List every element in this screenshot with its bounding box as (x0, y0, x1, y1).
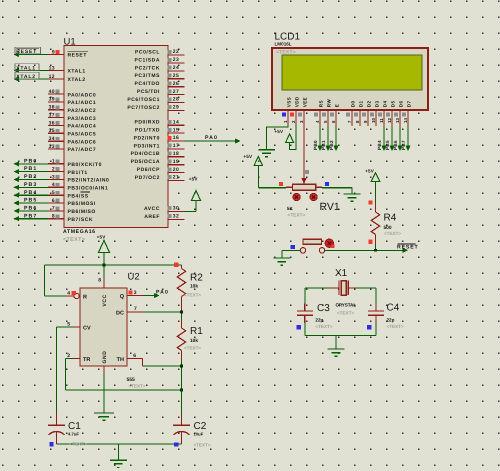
svg-text:D7: D7 (406, 101, 411, 108)
svg-text:<TEXT>: <TEXT> (287, 213, 305, 219)
svg-text:39: 39 (49, 97, 55, 103)
svg-text:1: 1 (52, 159, 55, 165)
svg-text:R: R (83, 294, 87, 300)
svg-text:VSS: VSS (286, 97, 291, 107)
svg-text:37: 37 (49, 112, 55, 118)
svg-text:10: 10 (371, 118, 376, 123)
svg-text:12: 12 (49, 74, 55, 80)
svg-text:PC6/TOSC1: PC6/TOSC1 (127, 97, 160, 103)
svg-text:D2: D2 (366, 101, 371, 108)
svg-text:<TEXT>: <TEXT> (337, 311, 354, 316)
svg-text:ATMEGA16: ATMEGA16 (63, 229, 96, 235)
svg-text:PD6/ICP: PD6/ICP (137, 167, 160, 173)
svg-text:R1: R1 (190, 326, 203, 337)
svg-text:35: 35 (49, 128, 55, 134)
svg-text:34: 34 (49, 136, 55, 142)
svg-text:PB7: PB7 (24, 213, 37, 219)
svg-text:PB5: PB5 (24, 198, 37, 204)
svg-text:X1: X1 (335, 268, 348, 279)
svg-text:40: 40 (49, 89, 55, 95)
svg-text:VEE: VEE (302, 97, 307, 107)
svg-text:3: 3 (52, 174, 55, 180)
svg-text:AREF: AREF (144, 214, 160, 220)
svg-text:PD0/RXD: PD0/RXD (134, 120, 160, 126)
svg-text:CV: CV (83, 325, 91, 331)
svg-text:26: 26 (173, 81, 179, 87)
svg-text:U1: U1 (64, 37, 76, 48)
svg-text:16: 16 (173, 135, 179, 141)
svg-text:TR: TR (83, 357, 90, 363)
svg-text:PC0/SCL: PC0/SCL (135, 49, 160, 55)
svg-text:19: 19 (173, 159, 179, 165)
svg-text:XTAL1: XTAL1 (16, 65, 36, 71)
svg-text:PB0: PB0 (24, 158, 37, 164)
svg-text:22: 22 (173, 49, 179, 55)
svg-text:RV1: RV1 (320, 201, 340, 213)
svg-text:D3: D3 (374, 101, 379, 108)
svg-text:PA3/ADC3: PA3/ADC3 (68, 116, 97, 122)
svg-text:15: 15 (173, 127, 179, 133)
svg-text:38: 38 (49, 105, 55, 111)
svg-text:D5: D5 (390, 101, 395, 108)
svg-text:<TEXT>: <TEXT> (194, 442, 211, 447)
svg-text:PB0/XCK/T0: PB0/XCK/T0 (68, 162, 102, 168)
svg-text:32: 32 (173, 214, 179, 220)
svg-text:+5V: +5V (243, 154, 253, 159)
svg-text:PB7: PB7 (401, 140, 406, 150)
svg-text:PA7/ADC7: PA7/ADC7 (68, 147, 97, 153)
svg-text:<TEXT>: <TEXT> (184, 345, 201, 350)
svg-text:2: 2 (67, 353, 70, 359)
svg-text:PA5/ADC5: PA5/ADC5 (68, 132, 97, 138)
svg-text:13: 13 (49, 65, 55, 71)
svg-text:4.7uF: 4.7uF (68, 432, 79, 437)
svg-text:555: 555 (127, 377, 136, 383)
svg-text:R4: R4 (384, 213, 397, 224)
svg-text:<TEXT>: <TEXT> (276, 50, 296, 56)
svg-text:22p: 22p (387, 317, 395, 322)
svg-text:22p: 22p (315, 317, 323, 322)
svg-text:<TEXT>: <TEXT> (70, 441, 87, 446)
svg-text:PB1/T1: PB1/T1 (68, 170, 88, 176)
svg-text:PD4/OC1B: PD4/OC1B (131, 151, 160, 157)
svg-text:7: 7 (52, 206, 55, 212)
svg-text:PA6/ADC6: PA6/ADC6 (68, 139, 97, 145)
svg-text:8: 8 (98, 278, 101, 284)
svg-text:<TEXT>: <TEXT> (387, 324, 404, 329)
svg-text:33: 33 (49, 144, 55, 150)
svg-text:<TEXT>: <TEXT> (129, 384, 146, 389)
svg-text:8: 8 (52, 214, 55, 220)
svg-text:PB6/MISO: PB6/MISO (68, 209, 96, 215)
svg-text:10uF: 10uF (194, 432, 204, 437)
svg-text:D0: D0 (350, 101, 355, 108)
svg-text:C1: C1 (68, 421, 81, 432)
svg-text:+5V: +5V (97, 235, 107, 240)
svg-text:AVCC: AVCC (144, 206, 160, 212)
svg-text:6: 6 (133, 353, 136, 359)
svg-text:PB2: PB2 (24, 174, 37, 180)
svg-text:PB4: PB4 (24, 190, 37, 196)
svg-text:CRYSTAL: CRYSTAL (336, 302, 357, 307)
svg-text:XTAL2: XTAL2 (68, 77, 86, 83)
svg-text:<TEXT>: <TEXT> (184, 293, 201, 298)
svg-text:RESET: RESET (16, 49, 37, 55)
svg-text:D4: D4 (382, 101, 387, 108)
svg-text:D6: D6 (398, 101, 403, 108)
svg-text:PD1/TXD: PD1/TXD (135, 128, 160, 134)
svg-text:14: 14 (173, 119, 179, 125)
svg-text:RESET: RESET (68, 53, 87, 59)
svg-text:PC3/TMS: PC3/TMS (134, 73, 160, 79)
svg-text:C2: C2 (194, 421, 207, 432)
svg-text:5K: 5K (287, 206, 294, 211)
svg-text:PB0: PB0 (313, 140, 318, 150)
svg-text:PC2/TCK: PC2/TCK (135, 65, 160, 71)
svg-text:PB6: PB6 (393, 140, 398, 150)
svg-text:+5V: +5V (189, 176, 199, 181)
svg-text:28: 28 (173, 97, 179, 103)
svg-text:RS: RS (318, 100, 323, 107)
svg-text:GND: GND (102, 351, 108, 364)
svg-text:5: 5 (52, 190, 55, 196)
svg-text:PB2: PB2 (329, 140, 334, 150)
svg-text:4: 4 (52, 182, 55, 188)
svg-text:PD3/INT1: PD3/INT1 (134, 143, 160, 149)
svg-text:12: 12 (387, 118, 392, 123)
svg-text:<TEXT>: <TEXT> (315, 324, 332, 329)
svg-text:9: 9 (52, 49, 55, 55)
svg-text:27: 27 (173, 89, 179, 95)
svg-text:+5V: +5V (365, 168, 375, 173)
svg-text:XTAL2: XTAL2 (16, 74, 36, 80)
svg-text:RW: RW (326, 99, 331, 108)
svg-text:2: 2 (52, 166, 55, 172)
svg-text:PB4/SS: PB4/SS (68, 193, 89, 199)
svg-text:PA0/ADC0: PA0/ADC0 (68, 92, 97, 98)
svg-text:PB7/SCK: PB7/SCK (68, 217, 94, 223)
svg-text:<TEXT>: <TEXT> (384, 231, 401, 236)
svg-text:PC5/TDI: PC5/TDI (137, 89, 160, 95)
svg-text:PA2/ADC2: PA2/ADC2 (68, 108, 97, 114)
svg-text:PC1/SDA: PC1/SDA (134, 57, 160, 63)
svg-text:DC: DC (116, 310, 124, 316)
svg-text:10k: 10k (190, 338, 198, 344)
svg-text:PD5/OC1A: PD5/OC1A (131, 159, 160, 165)
svg-text:20: 20 (173, 167, 179, 173)
svg-text:PA4/ADC4: PA4/ADC4 (68, 124, 97, 130)
svg-text:PB1: PB1 (24, 166, 37, 172)
svg-text:PA0: PA0 (156, 289, 169, 295)
svg-text:C3: C3 (317, 303, 330, 314)
svg-text:E: E (334, 104, 339, 107)
svg-text:PB6: PB6 (24, 206, 37, 212)
svg-text:PB3/OC0/AIN1: PB3/OC0/AIN1 (68, 186, 109, 192)
svg-text:4: 4 (67, 291, 70, 297)
svg-text:VDD: VDD (294, 96, 299, 107)
svg-text:7: 7 (134, 306, 137, 312)
svg-text:PD7/OC2: PD7/OC2 (135, 175, 160, 181)
svg-text:C4: C4 (387, 303, 400, 314)
svg-text:Q: Q (120, 294, 125, 300)
svg-text:10k: 10k (190, 284, 198, 290)
svg-text:PB5/MOSI: PB5/MOSI (68, 201, 96, 207)
svg-text:<TEXT>: <TEXT> (63, 237, 85, 243)
svg-text:13: 13 (395, 118, 400, 123)
svg-text:PB1: PB1 (321, 140, 326, 150)
svg-text:PB3: PB3 (24, 182, 37, 188)
svg-text:PD2/INT0: PD2/INT0 (134, 135, 160, 141)
svg-text:5: 5 (67, 322, 70, 328)
svg-text:30: 30 (173, 206, 179, 212)
svg-text:+5V: +5V (274, 129, 284, 134)
svg-text:29: 29 (173, 105, 179, 111)
svg-text:25: 25 (173, 73, 179, 79)
svg-text:14: 14 (403, 118, 408, 123)
svg-text:11: 11 (379, 118, 384, 123)
svg-text:23: 23 (173, 57, 179, 63)
svg-text:21: 21 (173, 175, 179, 181)
svg-text:R2: R2 (190, 273, 203, 284)
svg-text:PA1/ADC1: PA1/ADC1 (68, 100, 97, 106)
svg-text:3: 3 (134, 290, 137, 296)
svg-text:PC4/TDO: PC4/TDO (134, 81, 160, 87)
svg-text:18: 18 (173, 151, 179, 157)
svg-text:TH: TH (117, 357, 124, 363)
svg-text:RESET: RESET (397, 245, 419, 251)
svg-text:PA0: PA0 (205, 135, 218, 141)
svg-text:PB2/INT2/AIN0: PB2/INT2/AIN0 (68, 178, 110, 184)
svg-text:XTAL1: XTAL1 (68, 69, 86, 75)
svg-text:U2: U2 (128, 272, 140, 283)
svg-text:6: 6 (52, 198, 55, 204)
svg-text:PB4: PB4 (377, 140, 382, 150)
svg-text:D1: D1 (358, 101, 363, 108)
svg-text:LM016L: LM016L (275, 42, 292, 47)
svg-text:PB5: PB5 (385, 140, 390, 150)
svg-text:PC7/TOSC2: PC7/TOSC2 (127, 105, 160, 111)
svg-text:17: 17 (173, 143, 179, 149)
svg-text:VCC: VCC (102, 294, 108, 306)
svg-text:24: 24 (173, 65, 179, 71)
svg-text:36: 36 (49, 120, 55, 126)
svg-text:500: 500 (384, 225, 392, 231)
